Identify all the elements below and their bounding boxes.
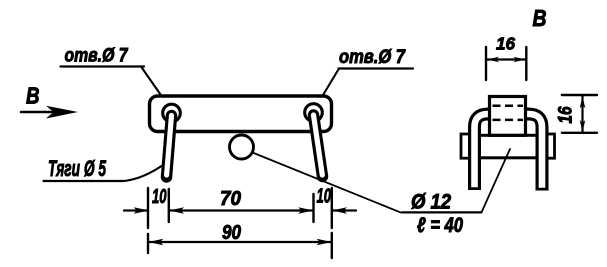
svg-text:10: 10 <box>317 185 332 208</box>
dimension 16 top: extension lines <box>486 47 526 80</box>
side view: plate (pin body) <box>472 135 545 158</box>
leader from side view plate to Ø12 label <box>482 149 511 212</box>
svg-text:В: В <box>533 5 547 31</box>
view arrow B head <box>46 106 78 119</box>
dimension 70 line with arrows <box>169 209 314 211</box>
side view: left tab (pin head) <box>461 134 472 158</box>
svg-text:16: 16 <box>556 106 577 123</box>
hole left Ø7 <box>163 104 181 122</box>
side view: right tab (pin head) <box>544 134 555 158</box>
hidden rod line (dashed) lower <box>493 119 524 122</box>
leader from left label to left hole <box>141 67 169 107</box>
dimension 10 right: outside shaft and arrow <box>332 209 356 211</box>
view arrow B shaft <box>21 111 58 114</box>
leader from right label to right hole <box>317 69 339 106</box>
svg-text:отв.Ø 7: отв.Ø 7 <box>65 46 129 67</box>
dimension 16 top: line and arrows <box>486 58 526 60</box>
tie rod left Ø5 <box>167 116 172 178</box>
svg-text:16: 16 <box>496 34 515 54</box>
svg-text:В: В <box>26 83 40 109</box>
side view: U-shaped tie rod <box>475 114 543 191</box>
underline of Ø12 label <box>402 211 481 213</box>
svg-text:Ø 12: Ø 12 <box>411 191 451 214</box>
underline of right hole label <box>339 67 414 69</box>
svg-text:70: 70 <box>220 187 242 210</box>
leader from rods label to left rod <box>124 166 162 181</box>
hidden rod line (dashed) upper <box>493 105 524 108</box>
dimension 16 right: line and arrows <box>581 96 583 132</box>
svg-text:Тяги Ø 5: Тяги Ø 5 <box>48 156 106 181</box>
svg-text:10: 10 <box>152 185 167 208</box>
underline of left hole label <box>61 65 145 67</box>
extension line 4 (right end of bar) <box>331 188 333 258</box>
beam bar (main view) <box>150 96 332 132</box>
hole right Ø7 <box>305 104 323 122</box>
dimension 10 left: outside shaft and arrow <box>124 209 148 211</box>
extension line 2 (left hole axis) <box>168 189 170 222</box>
dimension 16 right: extension lines <box>562 95 597 133</box>
svg-text:90: 90 <box>222 221 241 244</box>
extension line 1 (left end of bar) <box>147 188 149 253</box>
underline of rods label <box>44 180 125 182</box>
leader from pin to Ø12 label <box>253 153 401 213</box>
side view: block (bar end) <box>490 97 526 136</box>
dimension 90 line with arrows <box>148 241 331 243</box>
svg-text:отв.Ø 7: отв.Ø 7 <box>339 47 406 68</box>
svg-text:ℓ = 40: ℓ = 40 <box>417 214 463 237</box>
extension line 3 (right hole axis) <box>312 194 314 222</box>
tie rod right Ø5 <box>314 115 323 177</box>
pin circle Ø12 (main view) <box>230 135 254 159</box>
